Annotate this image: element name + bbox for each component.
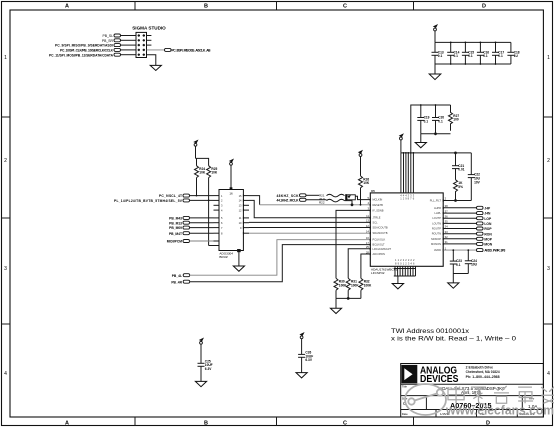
svg-text:0.01: 0.01 <box>458 168 464 172</box>
svg-text:4: 4 <box>547 371 550 377</box>
svg-text:1: 1 <box>4 55 7 61</box>
capacitor C13 <box>432 42 444 64</box>
svg-text:SCL: SCL <box>373 220 379 224</box>
svg-text:48KHZ_SCK: 48KHZ_SCK <box>277 194 300 198</box>
port LON <box>477 222 492 226</box>
IC U4 level translator <box>219 190 243 251</box>
capacitor C15 <box>462 42 474 64</box>
port MON <box>477 242 493 246</box>
svg-text:MONON: MONON <box>431 242 441 246</box>
svg-text:MON: MON <box>484 243 492 247</box>
wire J1 pin8 to port <box>147 49 165 51</box>
resistor R21 label block <box>319 194 325 205</box>
U5 bottom ground comb <box>394 266 416 283</box>
wire row U4 pin9 to U5 <box>249 232 370 234</box>
wire PLL branch <box>443 153 471 202</box>
svg-text:C: C <box>343 421 347 427</box>
capacitor C19 <box>417 104 429 134</box>
svg-text:25: 25 <box>366 245 370 249</box>
svg-text:2: 2 <box>4 158 7 164</box>
svg-text:LOP: LOP <box>484 217 492 221</box>
svg-text:D: D <box>482 3 486 9</box>
wire PB_4R to U5 <box>190 245 371 282</box>
ferrite bead FB1 <box>345 194 355 200</box>
port BLKTRH/H4/SDA_5V <box>114 199 214 203</box>
svg-text:A: A <box>65 3 69 9</box>
svg-text:3: 3 <box>4 266 7 272</box>
svg-text:Title: Title <box>402 384 408 388</box>
U4 label ADG3304 <box>219 251 233 258</box>
port PC_10/SPI_CLK/PB_10/SERCLK/CCLK <box>60 48 121 52</box>
svg-text:14: 14 <box>366 230 370 234</box>
svg-text:4: 4 <box>4 371 7 377</box>
ground (C25) <box>195 381 206 386</box>
wire FB1 to U5 pin5 <box>355 196 370 199</box>
port PB_SR <box>102 39 121 43</box>
wire U4 pin15 dogleg to MCLK row <box>249 196 260 205</box>
svg-text:35: 35 <box>445 220 449 224</box>
resistor R26 <box>359 176 370 206</box>
capacitor C23 <box>450 249 462 273</box>
port PC_11/SPI_MOSI/PB_11/SERDATA/DATA <box>49 53 121 57</box>
svg-text:28: 28 <box>366 250 370 254</box>
port MOP <box>477 237 493 241</box>
svg-text:10K: 10K <box>211 171 218 175</box>
svg-text:MONOP: MONOP <box>431 237 441 241</box>
port PB_M09 <box>169 226 213 230</box>
svg-text:SIGMA STUDIO: SIGMA STUDIO <box>132 26 166 31</box>
capacitor C24 <box>465 249 478 273</box>
svg-text:B: B <box>204 3 208 9</box>
junction dots bundle rail <box>403 152 415 154</box>
wire row U4 pin11 to U5 <box>249 221 370 223</box>
capacitor C18 <box>507 42 519 64</box>
svg-text:31: 31 <box>445 240 449 244</box>
svg-text:6.3V: 6.3V <box>205 367 212 371</box>
svg-text:ADC/P/DN: ADC/P/DN <box>373 252 386 256</box>
svg-text:10K: 10K <box>363 181 370 185</box>
svg-text:PB_M4T: PB_M4T <box>169 232 182 236</box>
svg-text:MCLKIN: MCLKIN <box>373 198 383 202</box>
wire U4 to ground <box>238 250 241 267</box>
svg-text:LFCSP32: LFCSP32 <box>371 271 385 275</box>
port MIDI/PCM <box>167 240 214 244</box>
svg-text:LON: LON <box>484 222 492 226</box>
svg-text:0.1: 0.1 <box>438 54 443 58</box>
wire top rail cap bank <box>435 41 511 43</box>
svg-text:1U: 1U <box>514 54 519 58</box>
wire U5 pin3 row <box>336 210 370 278</box>
port AVDD_PWR_3P3 <box>477 249 506 253</box>
wire J1 pin10 to ground <box>147 55 156 66</box>
U5 left pin names <box>373 198 392 256</box>
ground (AVDD caps) <box>448 283 459 288</box>
wire U4 pin14 dogleg <box>249 200 370 217</box>
svg-text:Chelmsford, MA 01824: Chelmsford, MA 01824 <box>466 370 500 374</box>
svg-text:ROUTN: ROUTN <box>432 232 441 236</box>
svg-text:PCLK/GLK: PCLK/GLK <box>373 238 386 242</box>
power flag DVDD (bundle) <box>399 133 404 153</box>
svg-text:PB_M13: PB_M13 <box>169 221 182 225</box>
wire upper RC rail <box>411 105 451 153</box>
svg-text:0.1: 0.1 <box>454 54 459 58</box>
svg-text:PB_SL: PB_SL <box>102 34 113 38</box>
svg-text:PC_10/SPI_CLK/PB_10/SERCLK/CCL: PC_10/SPI_CLK/PB_10/SERCLK/CCLK <box>60 49 114 53</box>
svg-text:LRCLK/MX/LRT: LRCLK/MX/LRT <box>373 247 392 251</box>
wire wavy2 tail to MCLK row <box>345 201 353 206</box>
U5 right rows + ports <box>443 208 476 244</box>
svg-text:SDA/SOUTB: SDA/SOUTB <box>373 231 388 235</box>
wire row U4 pin10 to U5 <box>249 227 370 229</box>
svg-text:LOUTN: LOUTN <box>432 221 441 225</box>
svg-text:PB_M09: PB_M09 <box>169 226 182 230</box>
svg-text:BCLK/SLT: BCLK/SLT <box>373 243 385 247</box>
svg-text:36: 36 <box>445 214 449 218</box>
svg-text:LHPL: LHPL <box>435 211 442 215</box>
wire PB_4L to U5 <box>190 240 371 276</box>
svg-text:x is the R/W bit. Read – 1, W: x is the R/W bit. Read – 1, Write – 0 <box>391 336 516 343</box>
ground (cap bank) <box>429 74 441 80</box>
capacitor C25 <box>198 359 213 381</box>
resistor R32 <box>359 278 372 298</box>
ground (upper RC) <box>415 143 426 148</box>
svg-text:TWI Address 0010001x: TWI Address 0010001x <box>391 328 470 335</box>
port PB_SL <box>102 34 120 38</box>
svg-text:J4P: J4P <box>484 206 491 210</box>
svg-text:LHPR: LHPR <box>434 206 441 210</box>
resistor R24 <box>195 166 206 197</box>
svg-text:100K: 100K <box>364 283 372 287</box>
svg-text:AVDD_PWR_3P3: AVDD_PWR_3P3 <box>484 249 505 253</box>
resistor R25 <box>207 166 219 246</box>
U5 right pin numbers <box>445 197 449 251</box>
svg-text:12: 12 <box>366 224 370 228</box>
port PB_M13 <box>169 221 213 225</box>
U4 pin edge ticks <box>219 194 243 246</box>
svg-text:J4N: J4N <box>484 212 491 216</box>
wire AVDD row <box>443 249 476 251</box>
svg-text:10U: 10U <box>471 263 478 267</box>
port J4P <box>477 206 492 210</box>
wire U5 pin25 row <box>348 249 370 278</box>
svg-text:RON: RON <box>484 232 492 236</box>
wire pull-up rail <box>196 158 209 165</box>
U5 top pin numbers <box>400 194 415 201</box>
capacitor C20 <box>432 104 444 134</box>
svg-text:0.1: 0.1 <box>438 119 443 123</box>
svg-text:PC_8/SPI_MISO/SS_A/SCLK_AB: PC_8/SPI_MISO/SS_A/SCLK_AB <box>172 49 212 53</box>
svg-text:ROUTP: ROUTP <box>432 227 441 231</box>
wire cap bank to ground <box>434 64 436 74</box>
power flag (C26 branch) <box>299 332 304 354</box>
svg-text:44.1KHZ_MCLK: 44.1KHZ_MCLK <box>277 198 300 202</box>
svg-text:10V: 10V <box>474 180 481 184</box>
wire net MCLK long row <box>260 204 371 206</box>
connector J1 SIGMA STUDIO header <box>132 26 166 58</box>
port ROP <box>477 227 493 231</box>
svg-text:SDA/COUTB: SDA/COUTB <box>373 226 388 230</box>
svg-text:2 Elizabeth Drive: 2 Elizabeth Drive <box>466 366 494 370</box>
svg-text:IF_SDNB: IF_SDNB <box>373 208 384 212</box>
ground (U5 bottom) <box>392 284 403 289</box>
svg-text:PLL_FILT: PLL_FILT <box>430 199 442 203</box>
port PB_4L (bottom left) <box>172 274 190 278</box>
port PB_M43 <box>169 216 213 220</box>
svg-text:Ph: 1–800–444–2568: Ph: 1–800–444–2568 <box>466 375 500 379</box>
svg-text:PL_14/PL24/TB_BVTB_5TMH4/SEL_5: PL_14/PL24/TB_BVTB_5TMH4/SEL_5V <box>114 199 183 203</box>
port PB_4R (bottom left) <box>171 280 189 284</box>
capacitor C21 (PLL) <box>452 164 465 180</box>
svg-text:R22: R22 <box>319 200 325 204</box>
IC U5 main codec <box>370 189 443 275</box>
wire wavy net 2 <box>306 199 345 202</box>
svg-text:34: 34 <box>445 225 449 229</box>
svg-text:0.1: 0.1 <box>483 54 488 58</box>
ADI address <box>466 366 500 379</box>
wire 48KHZ row <box>306 194 319 196</box>
svg-text:5%: 5% <box>458 185 463 189</box>
svg-text:PB_SR: PB_SR <box>102 39 114 43</box>
svg-text:1: 1 <box>547 55 550 61</box>
svg-text:3: 3 <box>547 266 550 272</box>
U4 pin numbers <box>221 194 242 236</box>
U5 pin edge ticks <box>370 198 443 255</box>
U4 right pin stubs <box>243 196 249 234</box>
ADI logo <box>401 365 417 383</box>
wire pulldown bottom rail <box>336 298 361 309</box>
wire U5 pin28 row <box>361 254 370 278</box>
wire wavy net 1 <box>327 194 345 197</box>
wire supply rail (U5 top) <box>401 152 471 154</box>
svg-text:0.1: 0.1 <box>456 263 461 267</box>
J1 right stubs <box>147 36 152 46</box>
power flag VDD (U4 top) <box>229 159 234 190</box>
capacitor C14 <box>447 42 459 64</box>
power flag VDD (pull-ups) <box>193 140 198 159</box>
port 44.1KHZ_MCLK <box>277 198 307 202</box>
U5 right pin names <box>430 199 442 253</box>
capacitor C26 <box>298 351 313 373</box>
svg-text:11: 11 <box>366 214 369 218</box>
svg-text:C: C <box>343 3 347 9</box>
port 48KHZ_SCK <box>277 194 307 198</box>
ground (U4) <box>233 266 244 271</box>
svg-text:13: 13 <box>366 219 370 223</box>
svg-text:A: A <box>65 421 69 427</box>
svg-text:JTRLE: JTRLE <box>373 216 381 220</box>
junction dots cap bank <box>450 42 497 65</box>
svg-text:6.3V: 6.3V <box>305 358 312 362</box>
svg-text:B: B <box>204 421 208 427</box>
svg-text:2: 2 <box>547 158 550 164</box>
power flag AVDD (R26) <box>358 150 363 176</box>
svg-text:ROP: ROP <box>484 227 492 231</box>
port J4N <box>477 212 492 216</box>
U4 left pin stubs <box>214 196 220 241</box>
svg-text:BRUZ: BRUZ <box>219 255 228 259</box>
ADI wordmark <box>420 365 459 385</box>
port PC_9/SCL_4T <box>159 194 214 198</box>
wire bottom rail cap bank <box>435 63 511 65</box>
resistor R30 <box>334 278 347 298</box>
wire U5 top bundle <box>401 153 414 193</box>
svg-text:PB_M43: PB_M43 <box>169 217 182 221</box>
port RON <box>477 232 493 236</box>
power flag +3.3V (cap bank) <box>433 24 438 42</box>
svg-text:0.1: 0.1 <box>424 119 429 123</box>
svg-text:0.1: 0.1 <box>468 54 473 58</box>
svg-text:Date: Date <box>402 412 408 416</box>
power flag (C25 branch) <box>199 338 204 364</box>
watermark logo circle <box>405 384 446 415</box>
watermark url <box>445 404 554 418</box>
svg-text:D: D <box>486 421 490 427</box>
svg-text:PC_9/SPI_MISO/PB_9/SERDAT/ASDI: PC_9/SPI_MISO/PB_9/SERDAT/ASDI <box>55 44 113 48</box>
wire rows into J1 left <box>121 36 137 55</box>
resistor R28 (PLL) <box>454 180 464 201</box>
svg-text:0.1: 0.1 <box>498 54 503 58</box>
ground (C26) <box>296 373 307 378</box>
svg-text:32: 32 <box>445 235 449 239</box>
svg-text:38: 38 <box>445 204 449 208</box>
svg-text:MIDI/PCM: MIDI/PCM <box>167 240 182 244</box>
svg-text:U5: U5 <box>371 189 375 193</box>
svg-text:16: 16 <box>229 192 233 196</box>
wire upper RC bottom rail <box>421 133 451 143</box>
resistor R27 <box>449 105 460 131</box>
svg-text:MOP: MOP <box>484 237 492 241</box>
svg-text:LOUTP: LOUTP <box>432 216 441 220</box>
U5 bottom pin numbers <box>395 258 415 265</box>
svg-text:16: 16 <box>366 236 370 240</box>
capacitor C16 <box>477 42 489 64</box>
svg-text:PC_11/SPI_MOSI/PB_11/SERDATA/C: PC_11/SPI_MOSI/PB_11/SERDATA/CDATA <box>49 53 114 57</box>
svg-text:100: 100 <box>453 118 459 122</box>
svg-text:PB_4R: PB_4R <box>171 280 182 284</box>
wire C23/C24 rail to ground <box>453 274 468 283</box>
port PC_9/SPI_MISO/PB_9/SERDAT/ASDI <box>55 44 121 48</box>
capacitor C17 <box>492 42 504 64</box>
title block texts <box>402 384 539 415</box>
watermark CJK glyphs <box>448 386 554 404</box>
svg-text:www.elecfans.com: www.elecfans.com <box>445 404 554 418</box>
svg-text:37: 37 <box>445 209 449 213</box>
svg-text:100K: 100K <box>351 283 359 287</box>
port PC_8/SPI_MISO/PB_8/SERCLK_A/MISO <box>165 48 212 52</box>
port LOP <box>477 217 492 221</box>
ground (pulldowns) <box>330 308 341 313</box>
ground (J1) <box>150 65 161 70</box>
svg-text:PB_4L: PB_4L <box>172 274 182 278</box>
note TWI address <box>391 328 516 343</box>
svg-text:PC_9/SCL_4T: PC_9/SCL_4T <box>159 194 182 198</box>
svg-text:10K: 10K <box>199 171 206 175</box>
U5 left pin numbers <box>366 196 370 254</box>
svg-text:RESETB: RESETB <box>373 203 384 207</box>
svg-text:33: 33 <box>445 230 449 234</box>
port PB_M4T <box>169 232 214 236</box>
resistor R31 <box>346 278 359 298</box>
capacitor C22 (PLL) <box>468 173 481 201</box>
connector pin crosses <box>138 34 145 56</box>
title block <box>401 364 544 418</box>
svg-text:AVDD: AVDD <box>434 248 441 252</box>
